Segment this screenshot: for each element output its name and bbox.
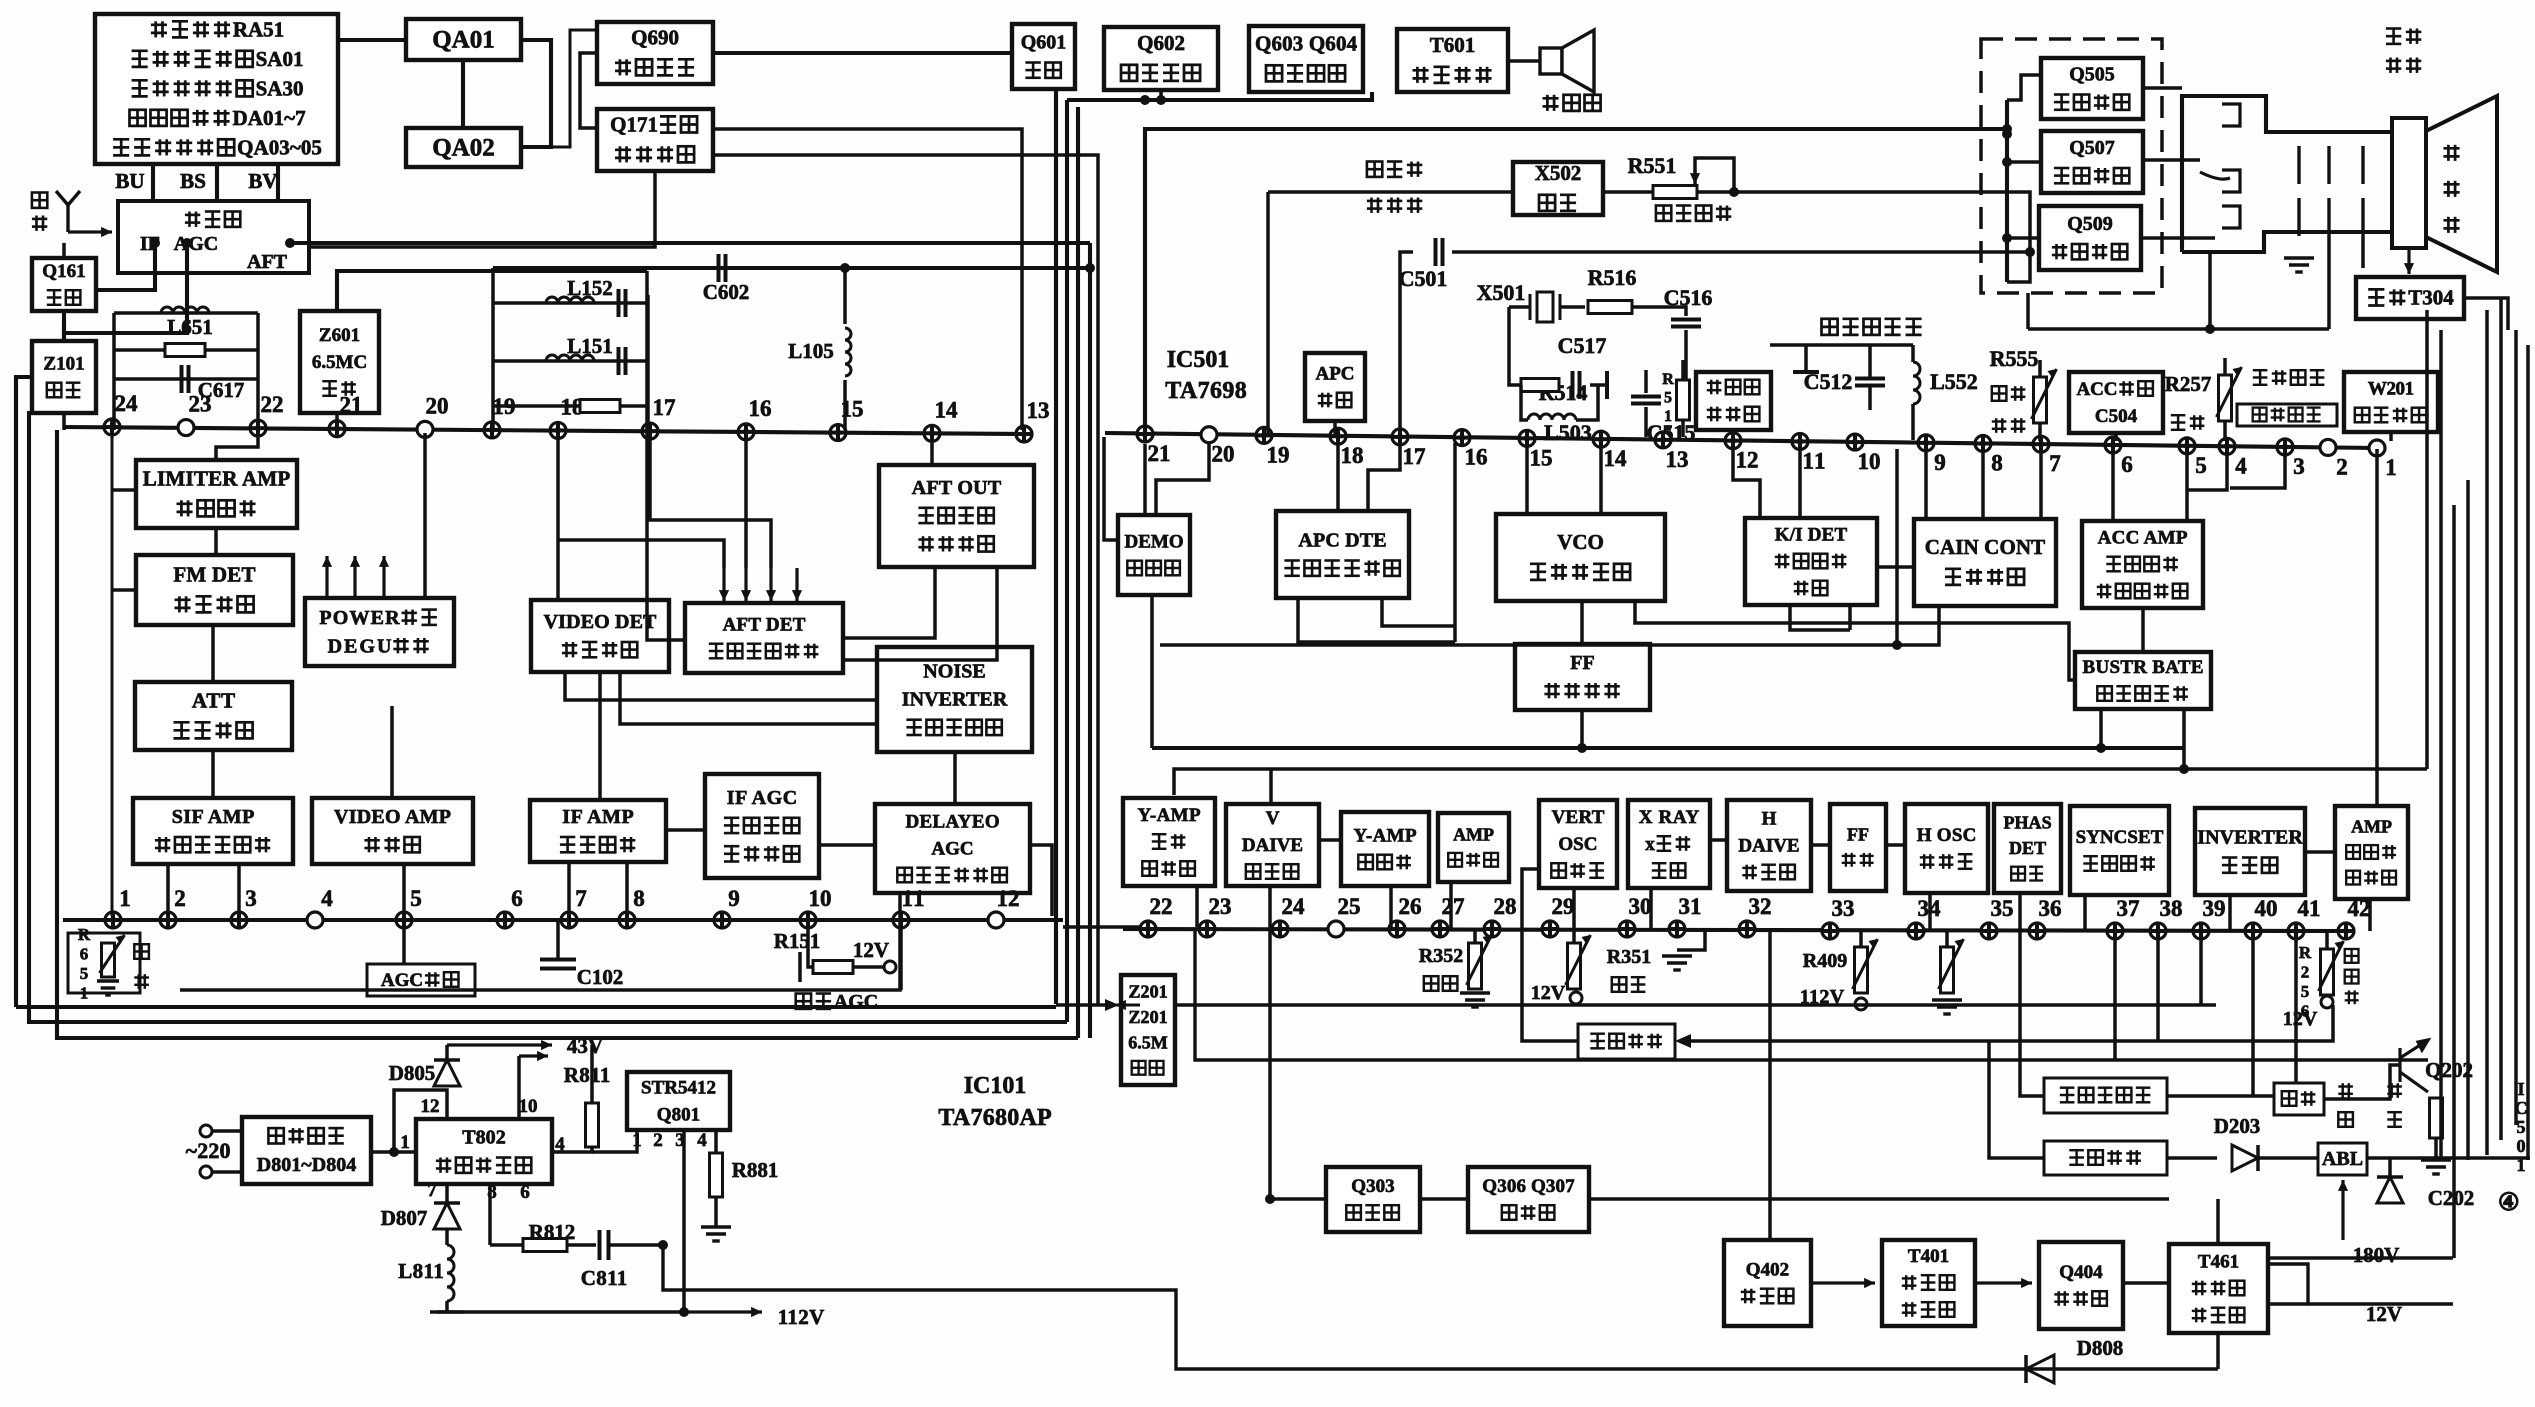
- block POWER DEGU: [305, 598, 454, 666]
- label burst purify: [1822, 319, 1838, 335]
- svg-text:20: 20: [426, 393, 449, 418]
- wire socket bottom bus: [2208, 252, 2212, 329]
- svg-text:41: 41: [2298, 896, 2321, 921]
- pin IC101-13: [1016, 426, 1032, 442]
- wire C515 down: [1644, 407, 1648, 437]
- node FF bottom: [1577, 743, 1587, 753]
- pin IC101-7: [561, 912, 577, 928]
- wire panel to QA01: [338, 38, 406, 42]
- pin IC501-6: [2105, 437, 2121, 453]
- wire pin37 riser: [2113, 933, 2117, 1060]
- block Q602 audio drive: [1104, 27, 1218, 90]
- wire R555 top: [2038, 360, 2042, 377]
- block Q171 auto fine-tune cancel: [597, 109, 713, 171]
- wire QA01 right loop: [521, 40, 551, 147]
- wire Q507 to socket: [2143, 158, 2200, 162]
- wire purify left drop: [1804, 345, 1808, 372]
- pin IC501-13: [1655, 432, 1671, 448]
- svg-text:DELAYEO: DELAYEO: [906, 812, 1000, 833]
- wire VDAIVE to pin24: [1268, 886, 1272, 929]
- svg-text:V: V: [1266, 808, 1280, 829]
- wire integ east line: [1691, 1005, 2333, 1041]
- wire LIMITER to FM: [214, 528, 218, 555]
- potentiometer R651: [102, 943, 115, 977]
- wire chroma line to RGB: [1400, 252, 1413, 437]
- svg-text:D805: D805: [389, 1061, 436, 1085]
- capacitor C517 plate: [1605, 371, 1609, 399]
- label deflection coil2: [2386, 58, 2401, 73]
- wire 180V line: [2268, 1256, 2453, 1260]
- svg-text:9: 9: [1934, 450, 1946, 475]
- svg-text:C811: C811: [581, 1266, 628, 1290]
- wire power arrow 1: [325, 556, 328, 598]
- label speaker: [1543, 95, 1559, 111]
- block STR5412 Q801: [627, 1072, 730, 1130]
- block tuner-control panel: [95, 14, 338, 164]
- svg-text:AFT: AFT: [247, 251, 288, 273]
- wire RGB bus vertical: [2005, 100, 2009, 282]
- svg-text:R257: R257: [2165, 372, 2212, 396]
- label field ampl: [1424, 976, 1439, 991]
- pin IC101-18: [550, 422, 566, 438]
- pin IC501-20: [1201, 427, 1217, 443]
- pin IC101-6: [497, 912, 513, 928]
- wire IFAMP to pin8: [625, 862, 629, 920]
- resistor L151 row: [580, 400, 620, 413]
- svg-text:POWER: POWER: [319, 607, 400, 629]
- label deflection coil: [2386, 29, 2401, 44]
- wire T802 pin8 drop: [488, 1184, 492, 1245]
- wire center riser 1: [1054, 89, 1058, 1004]
- wire chroma entry: [2007, 252, 2030, 282]
- wire T802 top left: [394, 1090, 447, 1152]
- svg-text:ACC: ACC: [2077, 379, 2118, 400]
- pin IC501-9: [1918, 435, 1934, 451]
- wire VIDEODET down left2: [620, 672, 877, 724]
- svg-text:T802: T802: [462, 1127, 505, 1149]
- wire Q161 top: [62, 243, 66, 258]
- inductor L151: [546, 355, 594, 361]
- svg-text:7: 7: [427, 1180, 437, 1201]
- svg-text:Q303: Q303: [1351, 1176, 1394, 1197]
- wire L651 tank right rail: [256, 313, 260, 430]
- svg-text:QA02: QA02: [432, 134, 495, 161]
- resistor R515: [1677, 380, 1690, 420]
- svg-text:180V: 180V: [2353, 1243, 2400, 1267]
- wire VERTOSC to pin29: [1572, 888, 1576, 929]
- block FM DET: [136, 555, 293, 625]
- svg-text:DEMO: DEMO: [1125, 531, 1184, 552]
- svg-text:R516: R516: [1588, 265, 1637, 290]
- wire Q690 left drop: [580, 53, 597, 128]
- svg-text:BV: BV: [248, 169, 277, 193]
- svg-text:21: 21: [340, 393, 363, 418]
- wire right margin riser 1: [2425, 310, 2429, 769]
- svg-text:C602: C602: [703, 280, 750, 304]
- svg-text:37: 37: [2117, 896, 2140, 921]
- pin IC101-23: [178, 420, 194, 436]
- wire C602 line: [493, 266, 1090, 270]
- wire BUSTR down2: [2182, 709, 2186, 769]
- pin IC101-19: [484, 422, 500, 438]
- pin IC101-11: [893, 912, 909, 928]
- wire FM DET west link: [112, 588, 136, 592]
- svg-text:DAIVE: DAIVE: [1242, 835, 1303, 856]
- svg-text:8: 8: [1991, 451, 2003, 476]
- svg-text:x: x: [1645, 834, 1655, 855]
- block H OSC: [1905, 804, 1988, 893]
- wire VIDEO DET to IF AMP: [598, 672, 602, 800]
- terminal AC 2: [200, 1166, 212, 1178]
- wire Z101 left loop: [16, 377, 32, 1007]
- svg-text:INVERTER: INVERTER: [2197, 827, 2303, 849]
- wire X502 right to R551: [1603, 190, 1655, 194]
- wire heater right down: [2361, 236, 2365, 268]
- pin IC501-31: [1669, 921, 1685, 937]
- svg-text:I: I: [2518, 1079, 2525, 1099]
- svg-text:5: 5: [1664, 389, 1672, 406]
- resistor L651 row: [165, 344, 205, 357]
- svg-text:D807: D807: [381, 1206, 428, 1230]
- svg-text:1: 1: [119, 886, 131, 911]
- svg-text:X502: X502: [1535, 161, 1582, 185]
- wire bottom rail: [663, 1245, 2218, 1369]
- wire pin38 riser: [2156, 933, 2160, 1041]
- wire R151 left bar: [798, 952, 802, 982]
- wire R551 east: [1697, 192, 2030, 252]
- svg-text:QA01: QA01: [432, 26, 495, 53]
- svg-text:H OSC: H OSC: [1917, 825, 1977, 846]
- ground R651: [97, 981, 119, 995]
- svg-text:APC DTE: APC DTE: [1298, 530, 1386, 552]
- wire VCO pin14: [1599, 444, 1603, 514]
- wire R881 top: [714, 1130, 718, 1153]
- wire Z601 to pin21: [335, 413, 339, 430]
- svg-text:32: 32: [1749, 894, 1772, 919]
- svg-text:112V: 112V: [778, 1305, 825, 1329]
- wire R257 top: [2223, 358, 2227, 375]
- svg-text:R151: R151: [774, 929, 821, 953]
- wire pin32 riser to Q402: [1768, 931, 1772, 1240]
- svg-text:CAIN CONT: CAIN CONT: [1925, 535, 2046, 559]
- wire LIMITER to pin22: [216, 433, 258, 460]
- wire R351 top: [1572, 929, 1576, 943]
- svg-text:INVERTER: INVERTER: [902, 689, 1008, 711]
- node bridge out: [389, 1147, 399, 1157]
- pin IC501-1: [2369, 440, 2385, 456]
- svg-text:Q505: Q505: [2069, 64, 2115, 86]
- wire pin20 drop to POWER: [423, 433, 427, 598]
- wire Q202 res down: [2434, 1138, 2438, 1158]
- wire ABL up: [2341, 1180, 2344, 1240]
- node tuner AFT: [285, 238, 295, 248]
- wire C512 down: [1868, 386, 1872, 410]
- pin IC501-25: [1328, 921, 1344, 937]
- wire AMPc to pin42: [2368, 899, 2372, 931]
- block ACC AMP: [2082, 521, 2203, 608]
- svg-text:0: 0: [2517, 1136, 2526, 1156]
- block CAIN CONT: [1914, 519, 2056, 606]
- wire SIF to pin2: [166, 864, 170, 920]
- T461 secondary: [2268, 1264, 2308, 1304]
- svg-text:12: 12: [1736, 448, 1759, 473]
- wire AC in 1: [212, 1129, 242, 1133]
- capacitor C602: [719, 254, 726, 282]
- wire L651 row3: [114, 377, 258, 381]
- resistor R151: [813, 961, 853, 974]
- capacitor purify plate: [1793, 370, 1819, 374]
- wire R551 loop: [1695, 158, 1734, 192]
- wire 112V arrow: [684, 1310, 762, 1313]
- wire pin14 to AFT OUT: [930, 433, 934, 465]
- svg-text:OSC: OSC: [1558, 834, 1597, 855]
- pin IC501-30: [1619, 921, 1635, 937]
- svg-text:DEGU: DEGU: [328, 635, 392, 657]
- diode D805: [434, 1060, 460, 1086]
- wire AFTOUT down2: [843, 567, 997, 660]
- block AFT OUT: [879, 465, 1034, 567]
- block H DAIVE: [1727, 800, 1811, 891]
- wire crt area bottom line: [2028, 327, 2329, 331]
- svg-text:Q601: Q601: [1021, 32, 1067, 54]
- svg-text:23: 23: [1209, 894, 1232, 919]
- block FF bistable: [1515, 644, 1650, 710]
- svg-text:DAIVE: DAIVE: [1738, 835, 1799, 856]
- wire LIMITER west link: [112, 488, 136, 492]
- node RGB g: [2002, 157, 2012, 167]
- svg-text:AGC: AGC: [381, 970, 423, 991]
- wire QA02 to Q171 column: [551, 30, 597, 147]
- label saturation: [1992, 386, 2007, 401]
- wire 43V arrow: [447, 1043, 552, 1046]
- wire Q602 bottom stub: [1159, 90, 1163, 100]
- wire R515 up: [1681, 360, 1685, 380]
- label hor field: [2338, 1083, 2353, 1098]
- diode D807: [434, 1203, 460, 1229]
- wire VDET to VAMP: [390, 706, 394, 798]
- ground crt heater: [2284, 258, 2314, 272]
- terminal R151: [884, 961, 896, 973]
- wire T601 to speaker: [1508, 59, 1540, 63]
- pin IC101-8: [619, 912, 635, 928]
- wire right margin riser 4: [2466, 480, 2470, 1160]
- wire killer filter drop: [1731, 430, 1735, 437]
- wire C517 tail: [1590, 383, 1607, 387]
- block Q402 line drive: [1724, 1240, 1811, 1326]
- svg-text:36: 36: [2039, 896, 2062, 921]
- label hor field2: [2338, 1112, 2353, 1127]
- label volume ctrl: [134, 944, 149, 959]
- svg-text:SA30: SA30: [256, 77, 304, 101]
- wire C811 right: [609, 1243, 663, 1247]
- wire FF-HOSC link: [1886, 843, 1905, 847]
- block DEMO decoder: [1118, 515, 1190, 595]
- block AMP contrast: [2335, 806, 2408, 899]
- wire 43V arrow2: [519, 1054, 548, 1057]
- wire power arrow 3: [382, 556, 385, 598]
- svg-text:IC101: IC101: [964, 1073, 1027, 1099]
- svg-text:C504: C504: [2095, 406, 2138, 427]
- block Q690 sound mute: [597, 22, 713, 84]
- svg-text:TA7680AP: TA7680AP: [938, 1105, 1051, 1131]
- svg-text:L552: L552: [1930, 369, 1978, 394]
- svg-text:11: 11: [1803, 448, 1826, 473]
- block ABL: [2318, 1143, 2367, 1175]
- node RGB in2: [2025, 247, 2035, 257]
- svg-text:Q602: Q602: [1137, 31, 1185, 55]
- svg-text:IF AMP: IF AMP: [562, 806, 633, 828]
- svg-text:Z101: Z101: [43, 353, 84, 374]
- wire YAMP2 to pin26: [1389, 886, 1393, 929]
- pin IC501-22: [1140, 921, 1156, 937]
- block K/I DET: [1745, 518, 1877, 605]
- block W201 delay trap: [2344, 372, 2438, 432]
- svg-text:33: 33: [1832, 896, 1855, 921]
- pin IC501-35: [1981, 923, 1997, 939]
- wire Q303 to Q306: [1420, 1197, 1468, 1201]
- svg-text:6: 6: [2121, 452, 2133, 477]
- svg-text:Q202: Q202: [2425, 1058, 2473, 1082]
- svg-text:L503: L503: [1544, 420, 1592, 445]
- svg-text:4: 4: [2235, 453, 2247, 478]
- block NOISE INVERTER: [877, 647, 1032, 752]
- svg-text:AMP: AMP: [2351, 817, 2392, 837]
- pin IC501-28: [1484, 921, 1500, 937]
- node pin10 riser join: [1892, 640, 1902, 650]
- wire FF down: [1580, 710, 1584, 748]
- svg-text:BS: BS: [180, 169, 206, 193]
- svg-text:31: 31: [1679, 894, 1702, 919]
- block killer ident filter: [1696, 372, 1771, 430]
- label direct line: [1367, 198, 1382, 213]
- label contrast: [2345, 949, 2359, 963]
- block ATT: [135, 682, 292, 750]
- wire W201 drop: [2389, 432, 2393, 441]
- wire T802 pin10 up: [517, 1056, 521, 1119]
- capacitor L152 row: [619, 289, 626, 317]
- svg-text:1: 1: [1664, 408, 1672, 425]
- pin IC501-4: [2219, 438, 2235, 454]
- wire bottom loop 3: [57, 430, 1078, 1038]
- potentiometer R257: [2219, 375, 2232, 421]
- ground pin31: [1662, 956, 1692, 970]
- wire L651 row2: [114, 348, 258, 352]
- block IF AGC: [705, 774, 819, 878]
- wire aft det arrow 3: [769, 568, 772, 601]
- capacitor C516: [1671, 320, 1701, 327]
- crystal X501: [1530, 292, 1560, 322]
- pin IC501-18: [1330, 428, 1346, 444]
- svg-text:AMP: AMP: [1453, 824, 1494, 844]
- svg-text:16: 16: [1465, 445, 1488, 470]
- wire VCO out right: [1635, 601, 2075, 680]
- block X502 delay: [1513, 162, 1603, 215]
- pin IC101-4: [307, 912, 323, 928]
- wire VAMP to pin5: [402, 864, 406, 920]
- wire APC filter drop: [1333, 421, 1337, 437]
- pin IC501-36: [2029, 923, 2045, 939]
- wire aft det arrow 1: [722, 568, 725, 601]
- pin IC501-19: [1256, 427, 1272, 443]
- svg-text:13: 13: [1666, 447, 1689, 472]
- inductor L105: [845, 328, 851, 376]
- svg-text:R551: R551: [1628, 153, 1677, 178]
- node BUSTR bus: [2096, 743, 2106, 753]
- wire X501 row: [1509, 305, 1530, 309]
- svg-text:D801~D804: D801~D804: [257, 1154, 357, 1176]
- svg-text:42: 42: [2348, 896, 2371, 921]
- wire L151 row: [493, 359, 648, 363]
- svg-text:26: 26: [1399, 894, 1422, 919]
- wire apc loop1: [1298, 598, 1455, 642]
- svg-text:L651: L651: [167, 315, 213, 339]
- speaker symbol: [1540, 30, 1594, 92]
- wire bottom loop 4: [180, 893, 900, 990]
- pin IC501-15: [1519, 430, 1535, 446]
- block V DAIVE: [1226, 804, 1319, 886]
- svg-text:10: 10: [1858, 449, 1881, 474]
- wire integ anti to highpass: [2167, 1094, 2274, 1098]
- capacitor C102: [540, 960, 576, 969]
- wire pin20 drop: [1156, 444, 1209, 515]
- resistor R551: [1653, 186, 1697, 199]
- crt gun arrow: [2200, 172, 2230, 179]
- svg-text:6: 6: [520, 1182, 530, 1203]
- wire T461 bottom drop: [2216, 1333, 2220, 1369]
- wire AC in 2: [212, 1170, 242, 1174]
- node bottom crt: [2205, 324, 2215, 334]
- block Q404 line output: [2039, 1242, 2123, 1329]
- block BUSTR BATE: [2075, 652, 2211, 709]
- wire Z101 bottom drop: [62, 413, 66, 430]
- wire integ line: [1522, 869, 1578, 1041]
- inductor L503: [1528, 414, 1576, 420]
- pin IC101-2: [160, 912, 176, 928]
- pin IC501-26: [1389, 921, 1405, 937]
- pin IC501-32: [1739, 921, 1755, 937]
- svg-text:C102: C102: [577, 965, 624, 989]
- inductor L552: [1913, 362, 1920, 404]
- wire pin34 pot top: [1945, 931, 1949, 947]
- terminal R351: [1570, 992, 1582, 1004]
- block ACC filter C504: [2069, 372, 2163, 433]
- svg-text:AGC: AGC: [931, 838, 973, 859]
- svg-text:28: 28: [1494, 894, 1517, 919]
- frame R651: [68, 933, 140, 993]
- svg-text:STR5412: STR5412: [641, 1077, 716, 1098]
- capacitor C617: [182, 365, 189, 393]
- block tuner: [118, 201, 309, 273]
- block Q603 Q604 audio power amp: [1249, 26, 1363, 92]
- block SIF AMP: [133, 798, 293, 864]
- pin IC101-9: [714, 912, 730, 928]
- wire heater mid down: [2327, 236, 2331, 329]
- wire pin5 to AGC filter: [402, 920, 406, 964]
- wire bus A into Z201: [1056, 1003, 1110, 1007]
- wire FF bottom bus: [1152, 746, 2184, 750]
- svg-text:Q801: Q801: [657, 1104, 700, 1125]
- wire aft feed3: [650, 433, 771, 568]
- wire pin39 riser: [2199, 933, 2203, 1005]
- node L105 top: [840, 263, 850, 273]
- wire R812 right: [567, 1243, 596, 1247]
- label saturation2: [1992, 418, 2007, 433]
- resistor R514: [1521, 379, 1559, 392]
- wire R409 top: [1859, 931, 1863, 947]
- wire YAMP to pin23: [1195, 886, 1199, 927]
- node C811 out: [658, 1240, 668, 1250]
- svg-text:9: 9: [728, 886, 740, 911]
